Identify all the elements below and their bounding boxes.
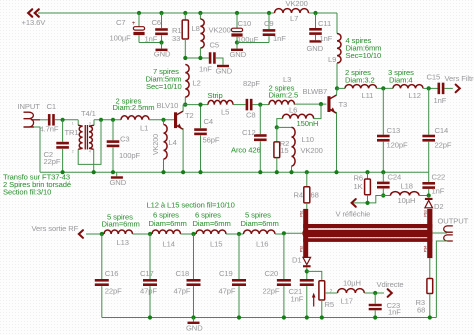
- wire collector row: [183, 104, 208, 106]
- svg-text:Arco 426: Arco 426: [231, 146, 261, 155]
- junction dots on +13.6V rail: [137, 11, 141, 15]
- wire OUTPUT shield to bottom rail: [436, 241, 447, 318]
- wire rail corner down to L9: [336, 13, 338, 34]
- connector INPUT jack: [24, 112, 34, 118]
- junction dots middle rail: [61, 170, 65, 174]
- capacitor C6: [161, 13, 163, 28]
- svg-text:Diam=6mm: Diam=6mm: [193, 219, 231, 228]
- wire L16 to coupler: [275, 233, 284, 235]
- svg-text:C3: C3: [120, 135, 130, 144]
- svg-text:GND: GND: [230, 50, 247, 59]
- svg-text:GND: GND: [154, 50, 171, 59]
- svg-text:Diam=6mm: Diam=6mm: [149, 219, 187, 228]
- wire C24 node to V reflechie arrow: [352, 196, 383, 203]
- wire L3 to T3 base: [295, 103, 327, 105]
- svg-text:TR1: TR1: [65, 128, 79, 137]
- svg-text:1nF: 1nF: [273, 34, 286, 43]
- ground middle rail: [116, 172, 118, 176]
- inductor L6: [282, 114, 313, 118]
- wire TR1 bottom center to ground rail: [93, 149, 95, 172]
- svg-text:BLV10: BLV10: [157, 101, 179, 110]
- node T2 collector: [183, 103, 187, 107]
- svg-text:VK200: VK200: [209, 25, 231, 34]
- svg-text:Strip: Strip: [208, 91, 223, 100]
- inductor L4 VK200: [164, 125, 168, 160]
- wire coupler to OUTPUT connector: [432, 232, 447, 234]
- svg-text:C4: C4: [204, 117, 214, 126]
- svg-text:C13: C13: [387, 126, 401, 135]
- inductor L10 VK200: [277, 126, 292, 128]
- transistor T2 BLV10: [174, 112, 177, 128]
- inductor L5 strip: [208, 100, 233, 104]
- svg-text:C19: C19: [219, 269, 233, 278]
- capacitor C24: [382, 172, 384, 181]
- inductor L7 VK200: [275, 9, 309, 13]
- coupler TR2 sense line top bar: [303, 224, 432, 228]
- svg-text:C9: C9: [264, 19, 274, 28]
- wire INPUT shield to ground rail: [24, 126, 35, 128]
- svg-text:P$2: P$2: [299, 246, 303, 252]
- svg-text:2: 2: [330, 289, 333, 295]
- resistor R1: [184, 13, 186, 20]
- wire C7-C6 ground link: [139, 42, 162, 44]
- svg-text:56pF: 56pF: [203, 136, 220, 145]
- capacitor C19: [238, 234, 240, 279]
- coupler TR2 left stub: [303, 209, 308, 258]
- transistor T3 BLWB7: [327, 96, 330, 112]
- svg-text:+13.6V: +13.6V: [22, 18, 47, 27]
- svg-text:VK200: VK200: [151, 134, 160, 155]
- capacitor C4: [200, 105, 202, 129]
- wire R5 wiper to L17: [325, 292, 338, 294]
- junction dots bottom rail: [148, 315, 152, 319]
- wire L5 to C8: [233, 104, 246, 106]
- svg-text:68: 68: [417, 305, 425, 314]
- svg-text:C16: C16: [105, 269, 119, 278]
- svg-text:22pF: 22pF: [263, 287, 280, 296]
- svg-text:33: 33: [172, 34, 180, 43]
- capacitor C23: [374, 293, 376, 304]
- svg-text:L17: L17: [341, 297, 353, 306]
- capacitor C5: [209, 52, 212, 64]
- capacitor C9: [268, 13, 270, 29]
- inductor L2: [185, 65, 189, 98]
- coupler TR2 main line bar: [303, 230, 432, 237]
- svg-text:GND: GND: [216, 66, 233, 75]
- svg-text:L9: L9: [328, 55, 336, 64]
- coupler TR2 sense line bottom bar: [303, 238, 432, 242]
- wire D1 node to R5: [307, 271, 322, 280]
- capacitor C21: [306, 271, 308, 279]
- svg-text:L14: L14: [163, 240, 175, 249]
- svg-text:L11: L11: [362, 91, 374, 100]
- capacitor C3: [112, 120, 114, 141]
- inductor L15: [196, 230, 226, 234]
- svg-text:Vers sortie RF: Vers sortie RF: [32, 224, 79, 233]
- svg-text:C11: C11: [318, 19, 331, 28]
- svg-text:47pF: 47pF: [219, 287, 236, 296]
- svg-text:10µH: 10µH: [343, 279, 361, 288]
- svg-text:3: 3: [89, 121, 91, 125]
- svg-text:1nF: 1nF: [199, 64, 212, 73]
- svg-text:P$4: P$4: [423, 246, 427, 252]
- svg-text:47pF: 47pF: [174, 287, 191, 296]
- wire L13-L14: [133, 233, 153, 235]
- inductor L13: [104, 230, 133, 234]
- coupler TR2 right stub: [427, 209, 432, 258]
- svg-text:22pF: 22pF: [105, 287, 122, 296]
- svg-text:Sec=10/10: Sec=10/10: [346, 51, 382, 60]
- svg-text:L5: L5: [221, 107, 229, 116]
- wire T3 collector: [336, 88, 339, 95]
- capacitor C8: [246, 99, 249, 111]
- svg-text:1K: 1K: [354, 182, 363, 191]
- svg-text:C15: C15: [427, 73, 441, 82]
- node Vers sortie RF arrow: [79, 230, 83, 238]
- wire T2 emitter down to rail: [182, 128, 184, 172]
- wire TR1 secondary top to C3/L1: [94, 119, 121, 121]
- svg-text:VK200: VK200: [286, 0, 308, 8]
- node Vdirecte arrow: [388, 289, 392, 297]
- svg-text:GND: GND: [307, 44, 324, 53]
- svg-text:VK200: VK200: [301, 146, 323, 155]
- svg-text:L7: L7: [290, 14, 298, 23]
- node +13.6V supply arrow: [28, 9, 32, 16]
- svg-text:D1: D1: [292, 256, 302, 265]
- svg-text:1nF: 1nF: [145, 34, 158, 43]
- node Vers Filtre output arrow: [456, 85, 460, 93]
- svg-text:100µF: 100µF: [110, 33, 132, 42]
- wire arrow to L13: [86, 233, 104, 235]
- capacitor C15: [438, 83, 441, 95]
- svg-text:Vers Filtre: Vers Filtre: [445, 74, 474, 83]
- wire L11-L12: [377, 87, 394, 89]
- wire TR1 bottom return loop: [78, 120, 101, 165]
- svg-text:Diam:2.5: Diam:2.5: [269, 91, 299, 100]
- svg-text:120pF: 120pF: [387, 140, 408, 149]
- svg-text:1: 1: [72, 121, 74, 125]
- wire L6 left down to R2/L10 node: [277, 119, 283, 128]
- svg-text:Section fil:3/10: Section fil:3/10: [3, 188, 51, 197]
- svg-text:L8: L8: [192, 24, 200, 33]
- svg-text:L12 à L15 section fil=10/10: L12 à L15 section fil=10/10: [147, 200, 235, 209]
- inductor L18: [383, 195, 390, 197]
- ground after C5: [216, 58, 223, 65]
- svg-text:C1: C1: [47, 102, 57, 111]
- svg-text:C8: C8: [246, 111, 256, 120]
- svg-text:Diam=6mm: Diam=6mm: [241, 219, 279, 228]
- svg-text:1nF: 1nF: [388, 308, 401, 317]
- resistor R2: [276, 127, 278, 141]
- svg-text:Diam:2.5mm: Diam:2.5mm: [113, 103, 155, 112]
- wire C15 to arrow: [444, 87, 452, 89]
- svg-text:1nF: 1nF: [320, 34, 333, 43]
- svg-text:L1: L1: [140, 124, 148, 133]
- capacitor C20: [283, 234, 285, 279]
- svg-text:C7: C7: [116, 18, 126, 27]
- svg-text:C22: C22: [432, 173, 446, 182]
- wire INPUT to C1: [40, 119, 48, 121]
- svg-text:L13: L13: [117, 238, 129, 247]
- ground bottom rail: [193, 318, 195, 322]
- svg-text:15: 15: [280, 146, 288, 155]
- svg-text:Diam:4: Diam:4: [389, 75, 412, 84]
- connector OUTPUT jack: [444, 226, 453, 232]
- svg-text:C17: C17: [140, 269, 154, 278]
- svg-text:V réfléchie: V réfléchie: [336, 209, 371, 218]
- svg-text:L12: L12: [409, 91, 421, 100]
- resistor R6: [367, 172, 369, 179]
- wire C9 to C10 ground node: [237, 42, 269, 44]
- svg-text:100pF: 100pF: [119, 151, 140, 160]
- wire rail after L7: [309, 12, 338, 14]
- svg-text:22pF: 22pF: [44, 157, 61, 166]
- capacitor C10: [236, 13, 238, 28]
- svg-text:47pF: 47pF: [140, 287, 157, 296]
- wire L1 to T2 base: [149, 119, 174, 121]
- svg-text:L6: L6: [289, 106, 297, 115]
- svg-text:L4: L4: [169, 138, 177, 147]
- inductor L8 VK200: [199, 13, 201, 19]
- svg-text:22pF: 22pF: [435, 140, 452, 149]
- inductor L12: [393, 85, 423, 89]
- inductor L9: [337, 34, 341, 64]
- svg-text:4: 4: [89, 150, 91, 154]
- capacitor C2: [62, 120, 64, 142]
- svg-text:GND: GND: [110, 178, 127, 187]
- svg-text:Diam:3.2: Diam:3.2: [345, 75, 375, 84]
- svg-text:82pF: 82pF: [243, 79, 260, 88]
- svg-text:C14: C14: [435, 126, 449, 135]
- svg-text:10µH: 10µH: [398, 196, 416, 205]
- diode D2: [425, 198, 433, 200]
- svg-text:1nF: 1nF: [434, 96, 447, 105]
- capacitor C22: [428, 172, 430, 182]
- wire L14-L15: [181, 233, 197, 235]
- svg-text:GND: GND: [186, 324, 203, 333]
- svg-text:T4/1: T4/1: [81, 109, 96, 118]
- capacitor C7: [138, 13, 140, 27]
- svg-text:C20: C20: [265, 269, 279, 278]
- svg-text:1nF: 1nF: [432, 186, 445, 195]
- capacitor C12: [259, 105, 261, 135]
- svg-text:R6: R6: [354, 173, 364, 182]
- pin stub INPUT center: [31, 119, 40, 121]
- inductor L1: [121, 116, 149, 120]
- resistor R3: [429, 258, 431, 279]
- svg-text:1nF: 1nF: [291, 295, 304, 304]
- capacitor C11: [315, 13, 317, 28]
- wire middle ground rail: [40, 171, 429, 173]
- capacitor C13: [382, 88, 384, 134]
- svg-text:C5: C5: [210, 41, 220, 50]
- svg-text:R4: R4: [294, 191, 304, 200]
- wire L15-L16: [226, 233, 244, 235]
- transformer TR1 T4/1: [77, 120, 79, 125]
- wire C1 to TR1: [55, 119, 78, 121]
- svg-text:Diam=6mm: Diam=6mm: [102, 220, 140, 229]
- svg-text:4.7nF: 4.7nF: [40, 125, 59, 134]
- inductor L16: [244, 230, 276, 234]
- ground below C10: [236, 43, 238, 49]
- wire T3 emitter to rail: [336, 112, 338, 172]
- svg-text:C12: C12: [242, 128, 256, 137]
- svg-text:P$3: P$3: [423, 210, 427, 216]
- svg-text:C6: C6: [152, 18, 162, 27]
- svg-text:P$1: P$1: [299, 210, 303, 216]
- wire bottom ground rail: [102, 317, 437, 319]
- svg-text:C18: C18: [176, 269, 190, 278]
- resistor R4: [306, 172, 308, 187]
- svg-text:Sec=10/10: Sec=10/10: [146, 82, 182, 91]
- wire collector to L11: [337, 87, 345, 89]
- svg-text:+: +: [132, 20, 136, 27]
- svg-text:2: 2: [72, 150, 74, 154]
- svg-text:68: 68: [311, 191, 319, 200]
- svg-text:L15: L15: [210, 240, 222, 249]
- svg-text:Vdirecte: Vdirecte: [377, 280, 404, 289]
- wire L12 to C15 node: [423, 87, 438, 89]
- svg-text:R5: R5: [325, 300, 335, 309]
- svg-text:L2: L2: [193, 78, 201, 87]
- inductor L3: [269, 100, 295, 104]
- inductor L14: [152, 230, 181, 234]
- wire C8 to L3 with C12 tap: [253, 104, 269, 106]
- node T3 collector junction: [335, 86, 339, 90]
- svg-text:L18: L18: [401, 181, 413, 190]
- capacitor C1: [48, 114, 51, 126]
- svg-text:L16: L16: [256, 240, 268, 249]
- ground below C6: [161, 43, 163, 49]
- node V reflechie arrow: [352, 199, 356, 207]
- capacitor C17: [149, 234, 151, 279]
- svg-text:T2: T2: [185, 111, 194, 120]
- svg-text:C10: C10: [238, 19, 252, 28]
- wire L17 to Vdirecte node: [364, 292, 384, 294]
- wire +13.6V rail: [38, 12, 275, 14]
- svg-text:L10: L10: [302, 135, 314, 144]
- wire T2 collector up: [182, 105, 184, 112]
- svg-text:T3: T3: [339, 100, 348, 109]
- svg-text:BLWB7: BLWB7: [303, 87, 328, 96]
- capacitor C18: [193, 234, 195, 279]
- diode D1: [303, 257, 311, 264]
- svg-text:INPUT: INPUT: [18, 102, 41, 111]
- svg-text:150nH: 150nH: [297, 119, 319, 128]
- potentiometer R5: [319, 281, 325, 300]
- wire L6 right to base node: [314, 104, 321, 119]
- capacitor C14: [428, 88, 430, 134]
- wire R1/L8/C5/L2 node: [185, 57, 209, 59]
- inductor L17: [338, 289, 365, 293]
- svg-text:D2: D2: [434, 202, 444, 211]
- svg-text:OUTPUT: OUTPUT: [438, 217, 469, 226]
- svg-text:C24: C24: [388, 173, 402, 182]
- inductor L11: [345, 85, 377, 89]
- capacitor C16: [101, 234, 103, 279]
